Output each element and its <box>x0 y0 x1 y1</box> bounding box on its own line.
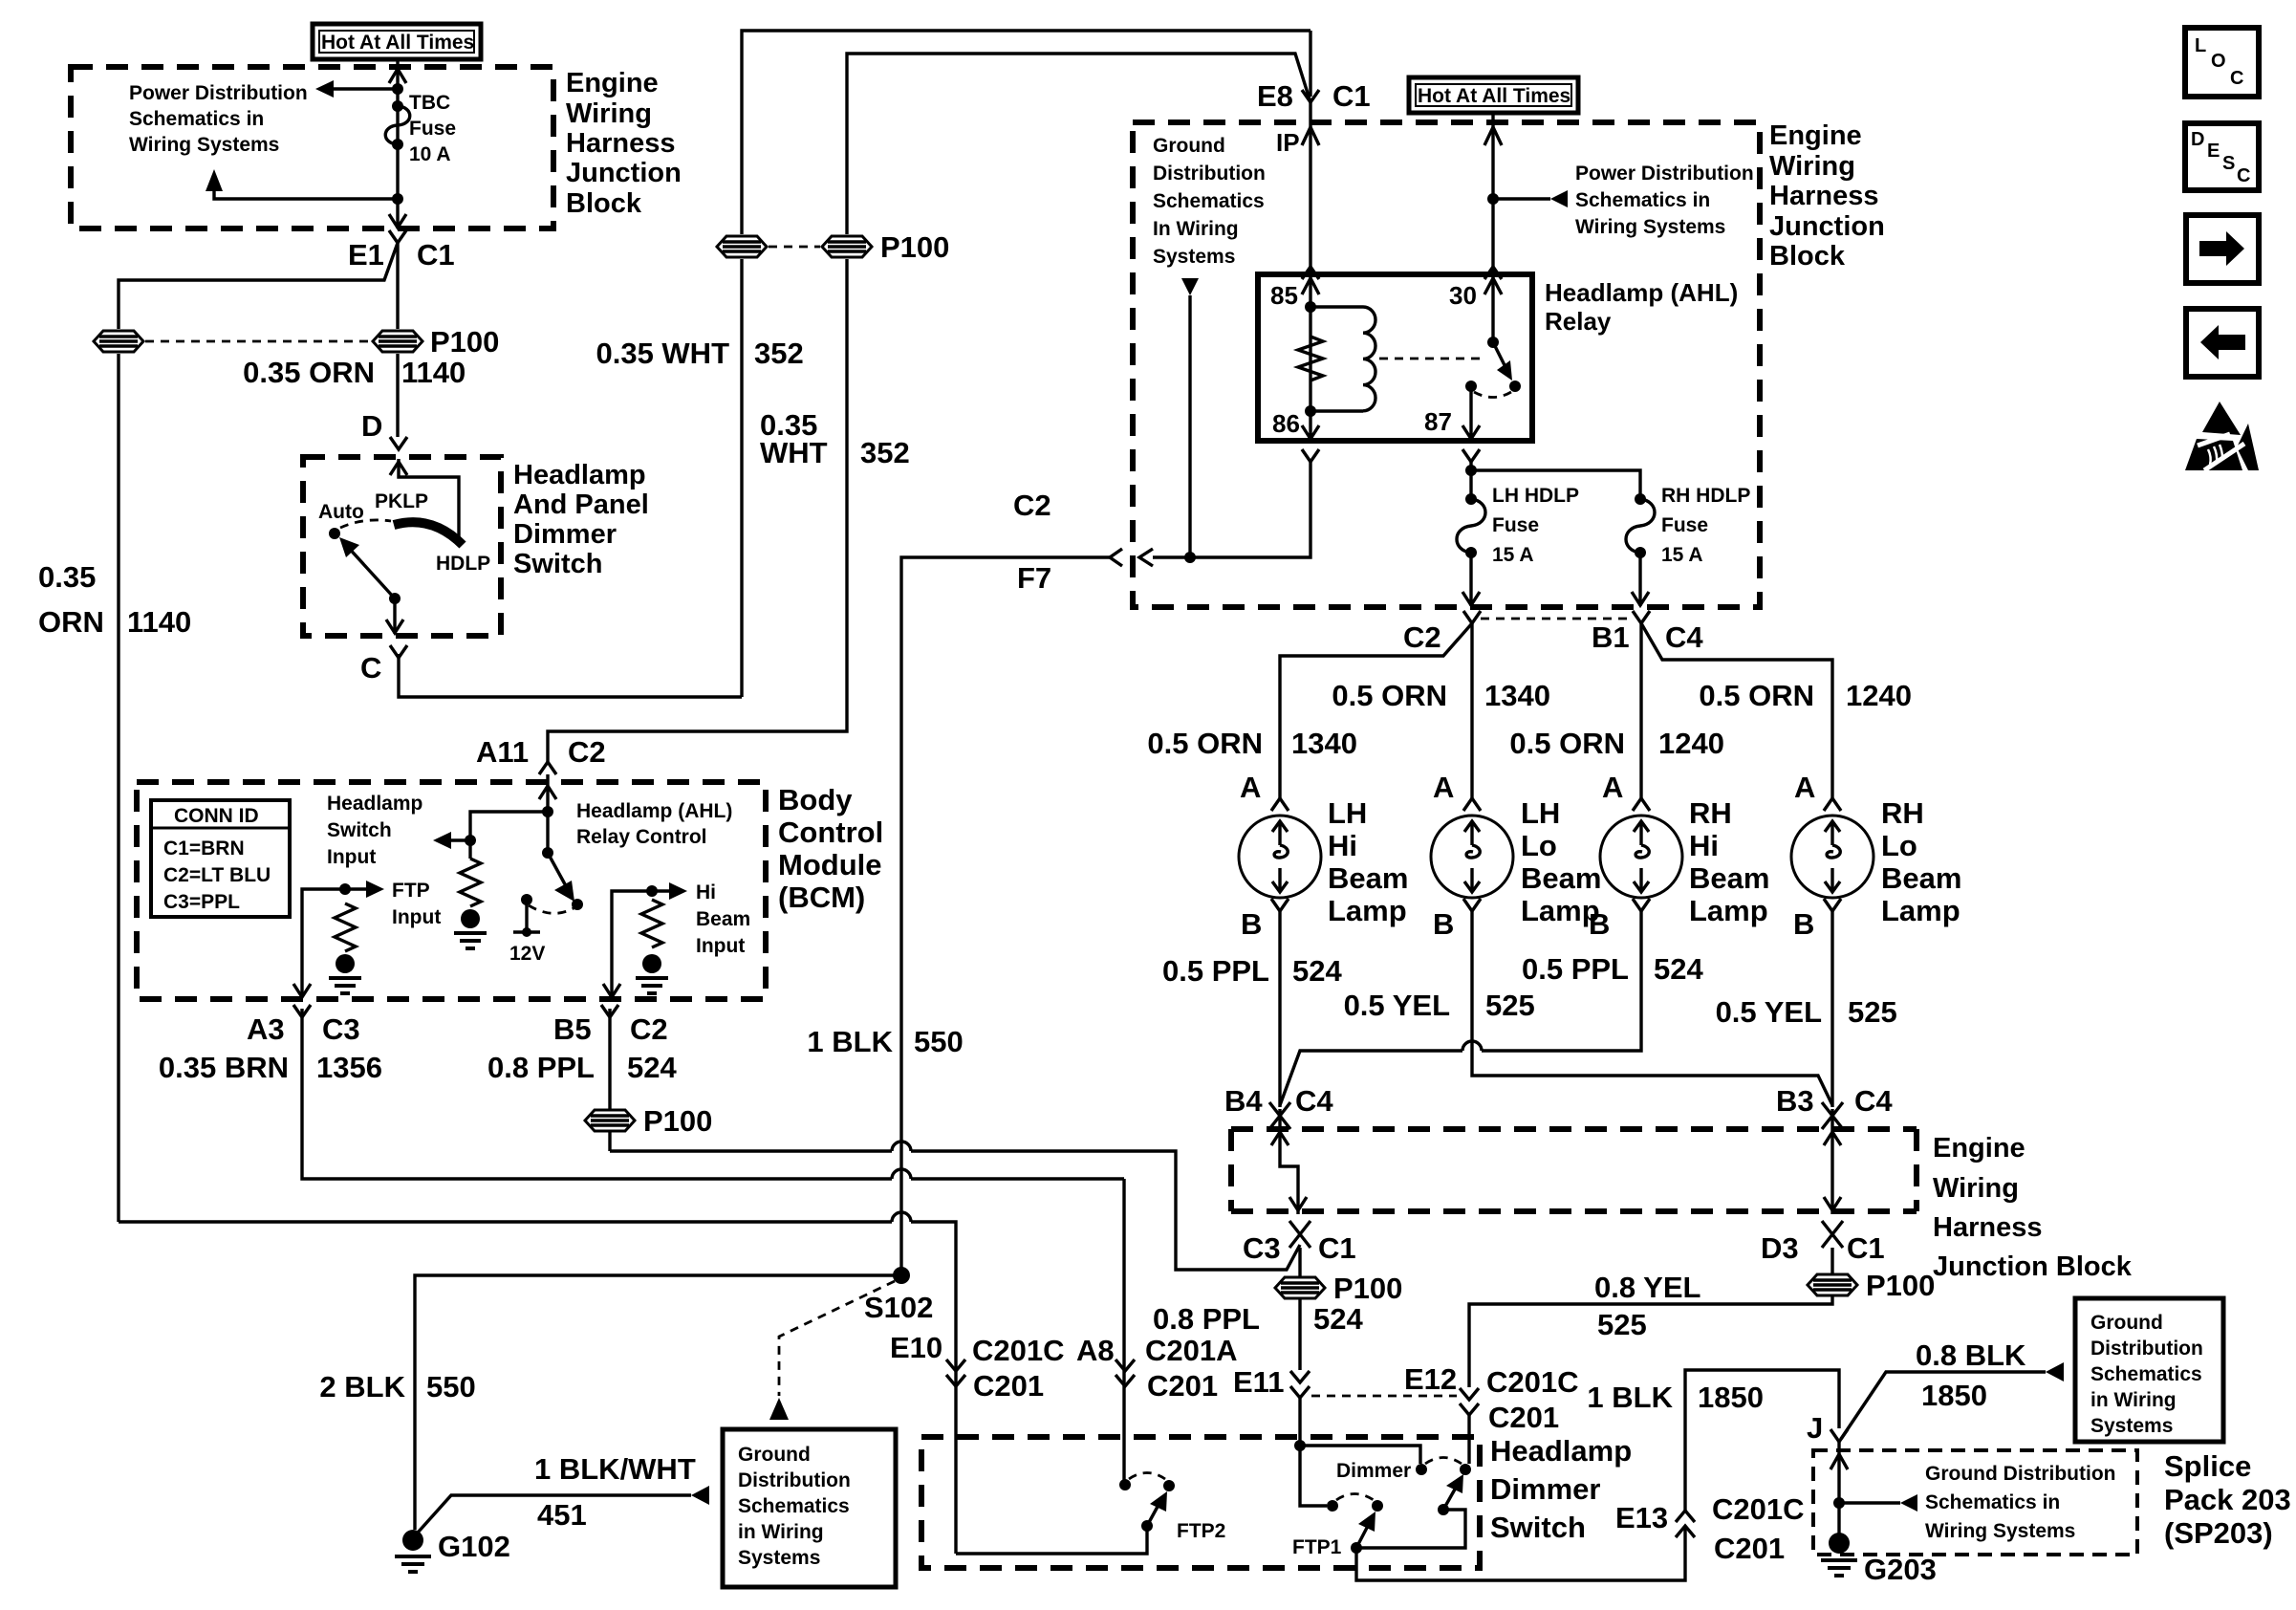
wire: G102 to ground distribution ref (1 BLK/WHT 451) <box>418 1495 691 1533</box>
contact: 12V <box>521 894 532 905</box>
svg-text:C: C <box>360 651 381 685</box>
svg-text:524: 524 <box>627 1051 677 1084</box>
svg-text:Relay: Relay <box>1545 307 1612 336</box>
node: hi beam input tap <box>646 885 658 897</box>
headlamp AHL relay box <box>1258 274 1532 441</box>
svg-text:0.8 YEL: 0.8 YEL <box>1594 1271 1700 1304</box>
connector J <box>1807 1411 1848 1445</box>
node S102 <box>893 1267 910 1284</box>
contact: arm end <box>572 899 583 910</box>
svg-text:Body: Body <box>778 783 853 816</box>
svg-text:C1: C1 <box>417 238 455 272</box>
svg-text:FTP1: FTP1 <box>1292 1536 1342 1558</box>
svg-text:352: 352 <box>860 436 910 469</box>
svg-text:Switch: Switch <box>1490 1511 1586 1544</box>
wire: C2 diagonal to LH Hi feed <box>1280 623 1472 798</box>
svg-text:Wiring Systems: Wiring Systems <box>1925 1520 2075 1542</box>
node: headlamp switch input arrow tap <box>465 835 476 846</box>
svg-text:Headlamp (AHL): Headlamp (AHL) <box>1545 278 1738 307</box>
ground distribution schematics box (right) <box>2075 1298 2223 1442</box>
svg-text:30: 30 <box>1449 281 1477 310</box>
svg-text:Input: Input <box>327 846 376 868</box>
wire: B5 right to C3/C1 (0.8 PPL) <box>610 1151 1300 1270</box>
svg-text:Junction: Junction <box>1769 211 1885 242</box>
wire+arrow: splice ground distribution ref <box>1839 1501 1900 1504</box>
hot-at-all-times box 2 <box>1409 77 1578 113</box>
svg-text:525: 525 <box>1485 989 1535 1022</box>
ground (internal BCM, FTP) <box>329 954 361 993</box>
wire: D3/C1 down through P100 to 0.8 YEL run <box>1469 1248 1832 1387</box>
svg-text:Fuse: Fuse <box>1661 514 1708 536</box>
svg-text:C3=PPL: C3=PPL <box>163 891 240 913</box>
node: power distribution tap <box>392 83 403 95</box>
dashed link E11 to E12 <box>1311 1395 1457 1398</box>
wire: relay 85 internal <box>1309 276 1311 411</box>
node: fuse output tap <box>392 193 403 205</box>
svg-text:Engine: Engine <box>1769 120 1862 151</box>
contact: dimmer left <box>1416 1464 1427 1475</box>
wire: A8 wire down to FTP2 contact <box>1122 1179 1125 1480</box>
svg-text:0.8 PPL: 0.8 PPL <box>1153 1302 1260 1336</box>
svg-text:IP: IP <box>1276 128 1300 157</box>
connector E13 C201C/C201 <box>1676 1492 1805 1565</box>
arrow up below top edge (IP) <box>1302 127 1319 145</box>
svg-text:Input: Input <box>392 906 441 928</box>
relay coil <box>1310 307 1375 411</box>
svg-text:0.5 ORN: 0.5 ORN <box>1509 727 1625 760</box>
svg-text:Input: Input <box>696 935 745 957</box>
svg-text:1356: 1356 <box>316 1051 382 1084</box>
svg-text:Distribution: Distribution <box>738 1469 851 1491</box>
svg-text:Distribution: Distribution <box>1153 163 1266 185</box>
fuse RH HDLP 15A <box>1626 485 1750 566</box>
svg-text:C: C <box>2230 68 2243 89</box>
ground (internal BCM) <box>454 909 487 948</box>
pivot contact <box>389 593 401 604</box>
svg-text:1240: 1240 <box>1658 727 1724 760</box>
wire: E1 to left branch via diagonal <box>119 243 398 329</box>
wire: RH Hi B left to B4/C4 (0.5 PPL) <box>1280 911 1641 1105</box>
svg-text:A: A <box>1602 771 1623 804</box>
svg-text:RH: RH <box>1881 796 1924 830</box>
arrow up at BCM top edge <box>539 786 556 799</box>
svg-text:0.35 BRN: 0.35 BRN <box>159 1051 289 1084</box>
wire: E12 down to dimmer right contact <box>1467 1415 1470 1464</box>
left arrow box <box>2186 309 2259 377</box>
svg-text:Lamp: Lamp <box>1689 894 1768 927</box>
connector E1 / C1 <box>348 230 455 272</box>
arrow up below top edge (30 feed) <box>1484 127 1502 145</box>
svg-text:A: A <box>1240 771 1261 804</box>
svg-text:B: B <box>1793 907 1814 941</box>
svg-text:1140: 1140 <box>127 605 191 639</box>
svg-text:D: D <box>361 409 382 443</box>
svg-text:Power Distribution: Power Distribution <box>129 82 308 104</box>
svg-text:C4: C4 <box>1295 1084 1333 1118</box>
svg-text:A3: A3 <box>247 1012 285 1046</box>
wire: B4 through junction block with jog <box>1280 1109 1298 1214</box>
dashed arc 12V to arm <box>529 905 574 913</box>
lamp LH Hi Beam: pin A <box>1240 771 1289 811</box>
ref arrow (ground distribution, G102) <box>691 1486 709 1505</box>
svg-text:550: 550 <box>426 1370 476 1403</box>
svg-text:Lo: Lo <box>1881 829 1917 862</box>
dashed actuation link <box>1379 358 1484 360</box>
svg-text:0.5 YEL: 0.5 YEL <box>1344 989 1450 1022</box>
ref arrow left (power distribution) <box>315 80 334 98</box>
svg-text:Engine: Engine <box>566 68 659 98</box>
dashed arc FTP2 contacts <box>1129 1473 1165 1480</box>
svg-text:A: A <box>1794 771 1815 804</box>
right arrow box <box>2186 215 2259 283</box>
engine wiring harness junction block 3 (dashed box) <box>1231 1129 1917 1211</box>
svg-text:Systems: Systems <box>1153 246 1235 268</box>
svg-text:0.35 ORN: 0.35 ORN <box>243 356 375 389</box>
svg-text:B5: B5 <box>553 1012 592 1046</box>
ground distribution schematics box (bottom left) <box>723 1429 896 1587</box>
wire: tap to power distribution reference <box>334 87 398 90</box>
ref arrow up <box>206 169 223 191</box>
contact: FTP1 left <box>1327 1500 1338 1512</box>
svg-text:LH: LH <box>1521 796 1560 830</box>
node: FTP input tap <box>339 883 351 895</box>
wire: RH Lo B down to B3/C4 <box>1830 911 1833 1107</box>
wire: A3 FTP path inside BCM <box>302 889 345 997</box>
grommet P100 (left) <box>94 331 143 352</box>
switch position arc (PKLP to HDLP), thick <box>394 522 463 545</box>
connector A11 / C2 <box>476 735 606 774</box>
svg-text:0.8 PPL: 0.8 PPL <box>487 1051 595 1084</box>
svg-text:Harness: Harness <box>1769 181 1878 211</box>
node: coil/resistor top <box>1305 301 1316 313</box>
svg-text:Junction Block: Junction Block <box>1933 1251 2133 1282</box>
svg-text:J: J <box>1807 1411 1823 1445</box>
svg-text:1340: 1340 <box>1484 679 1550 712</box>
svg-text:Schematics: Schematics <box>738 1495 850 1517</box>
ESD symbol <box>2185 402 2259 470</box>
lamp LH Lo Beam: pin B <box>1433 899 1481 941</box>
dashed arc dimmer contacts <box>1425 1458 1462 1465</box>
svg-text:550: 550 <box>914 1025 964 1058</box>
resistor (headlamp switch input pull-up) <box>460 859 481 906</box>
connector caret below relay (86) <box>1302 449 1319 462</box>
dashed link C2 to B1 <box>1481 618 1629 620</box>
svg-text:Ground Distribution: Ground Distribution <box>1925 1463 2115 1485</box>
svg-text:Beam: Beam <box>1689 861 1769 895</box>
contact: dimmer right <box>1460 1464 1471 1475</box>
svg-text:0.8 BLK: 0.8 BLK <box>1916 1338 2026 1372</box>
contact: pivot 30 <box>1487 337 1499 348</box>
arrow up at box top edge <box>389 69 406 83</box>
wire: IP from E8 down to relay 85 <box>1309 102 1311 274</box>
svg-text:C2: C2 <box>630 1012 668 1046</box>
svg-text:Lamp: Lamp <box>1328 894 1407 927</box>
wire: P100 down to headlamp switch D <box>396 354 399 437</box>
svg-text:85: 85 <box>1270 281 1298 310</box>
svg-text:1240: 1240 <box>1846 679 1912 712</box>
svg-text:Power Distribution: Power Distribution <box>1575 163 1754 185</box>
wire: B1 diagonal to RH Lo feed <box>1641 623 1832 798</box>
svg-text:A11: A11 <box>476 735 529 769</box>
svg-text:B: B <box>1241 907 1262 941</box>
wire: D into switch <box>399 459 459 541</box>
svg-text:Schematics: Schematics <box>2090 1363 2202 1385</box>
svg-text:Pack 203: Pack 203 <box>2164 1483 2291 1516</box>
open arrow at junction block edge (86 ground) <box>1139 549 1153 566</box>
splice pack 203 (dashed box) <box>1813 1450 2137 1555</box>
svg-text:E1: E1 <box>348 238 384 272</box>
contact: FTP1 right <box>1372 1500 1383 1512</box>
svg-text:Ground: Ground <box>2090 1312 2163 1334</box>
svg-text:B3: B3 <box>1776 1084 1814 1118</box>
connector E8 / C1 <box>1257 31 1371 113</box>
ground G203 <box>1821 1533 1937 1586</box>
svg-text:In Wiring: In Wiring <box>1153 218 1239 240</box>
wire: riser from C up through P100 to top line <box>740 259 743 697</box>
contact: FTP2 right <box>1163 1480 1175 1491</box>
svg-text:TBC: TBC <box>409 92 450 114</box>
svg-text:C1=BRN: C1=BRN <box>163 838 245 859</box>
svg-text:O: O <box>2211 51 2226 72</box>
svg-text:C4: C4 <box>1665 620 1703 654</box>
body control module BCM (dashed box) <box>137 782 766 999</box>
node: relay control switch pivot <box>542 847 553 859</box>
ref arrow (0.8 BLK ground distribution) <box>2046 1362 2064 1382</box>
node: dimmer feed <box>1294 1440 1306 1451</box>
LOC box <box>2185 28 2259 97</box>
svg-text:A8: A8 <box>1076 1334 1115 1367</box>
svg-text:P100: P100 <box>1333 1272 1402 1305</box>
engine wiring harness junction block 2 (dashed box) <box>1133 122 1760 607</box>
wire: E10 drop from left long run <box>119 1222 956 1554</box>
svg-text:ORN: ORN <box>38 605 104 639</box>
svg-text:P100: P100 <box>1866 1269 1935 1302</box>
dashed ref from S102 to ground distribution box <box>779 1281 895 1396</box>
svg-text:C: C <box>2237 165 2250 186</box>
lamp RH Hi Beam <box>1600 816 1682 898</box>
svg-text:LH HDLP: LH HDLP <box>1492 485 1579 507</box>
wire: A11 into BCM <box>546 774 549 853</box>
svg-text:0.5 PPL: 0.5 PPL <box>1162 954 1269 988</box>
wire: 87 down-arrow inside relay <box>1462 386 1480 439</box>
svg-text:Switch: Switch <box>513 549 602 579</box>
svg-text:C2=LT BLU: C2=LT BLU <box>163 864 271 886</box>
CONN ID table <box>151 800 290 917</box>
svg-text:Dimmer: Dimmer <box>1336 1460 1411 1482</box>
svg-text:Harness: Harness <box>1933 1212 2042 1243</box>
svg-text:C3: C3 <box>1243 1231 1281 1265</box>
svg-text:Wiring: Wiring <box>1933 1173 2019 1204</box>
wire: split to RH fuse <box>1471 470 1640 499</box>
grommet P100 (right) <box>373 331 422 352</box>
svg-text:Harness: Harness <box>566 128 675 159</box>
wire: A11 riser below P100 <box>548 259 847 762</box>
switch arm with arrow toward Auto <box>339 537 395 598</box>
svg-text:Lamp: Lamp <box>1881 894 1960 927</box>
svg-text:Hi: Hi <box>696 881 716 903</box>
wire: B1 straight to RH Hi feed <box>1639 623 1642 798</box>
fuse LH HDLP 15A <box>1457 485 1579 566</box>
wire: LH fuse to box edge <box>1462 553 1480 606</box>
svg-text:And Panel: And Panel <box>513 490 649 520</box>
hop over ground wire (E10 run) <box>892 1212 911 1222</box>
svg-text:Hi: Hi <box>1328 829 1357 862</box>
arrow down at BCM bottom (A3) <box>293 984 311 997</box>
connector A3 / C3 <box>247 1005 360 1046</box>
wire: dimmer pivot to FTP1 pivot <box>1356 1510 1465 1548</box>
FTP2 arm with arrow <box>1147 1491 1167 1526</box>
svg-text:0.5 YEL: 0.5 YEL <box>1716 995 1822 1029</box>
wire: pivot down to box edge <box>393 598 396 634</box>
svg-text:C3: C3 <box>322 1012 360 1046</box>
hop over ground wire (B5 run) <box>892 1142 911 1151</box>
svg-text:Ground: Ground <box>1153 135 1225 157</box>
wire: tap to up-arrow reference <box>214 191 398 199</box>
svg-text:Beam: Beam <box>1521 861 1601 895</box>
svg-text:C1: C1 <box>1332 79 1371 113</box>
svg-text:Relay Control: Relay Control <box>576 826 707 848</box>
ref arrow down (ground distribution) <box>1181 278 1199 295</box>
wire: C3/C1 down through P100 to E11 <box>1298 1248 1301 1370</box>
wire: J into splice pack <box>1837 1442 1840 1534</box>
svg-text:15 A: 15 A <box>1661 544 1703 566</box>
contact: FTP1 pivot <box>1351 1542 1362 1554</box>
wire: 87 to fuse split <box>1469 462 1472 499</box>
svg-text:E10: E10 <box>890 1331 942 1364</box>
contact: FTP2 left <box>1119 1479 1131 1490</box>
node: coil/resistor bottom <box>1305 405 1316 417</box>
svg-text:1140: 1140 <box>401 356 466 389</box>
connector C2 / F7 at box edge <box>1013 489 1122 595</box>
svg-text:G203: G203 <box>1864 1553 1937 1586</box>
svg-text:Switch: Switch <box>327 819 392 841</box>
svg-text:D3: D3 <box>1761 1231 1799 1265</box>
connector E12 C201C/C201 <box>1460 1365 1579 1434</box>
svg-text:CONN ID: CONN ID <box>174 805 259 827</box>
svg-text:525: 525 <box>1848 995 1897 1029</box>
svg-text:C1: C1 <box>1318 1231 1356 1265</box>
wire: hot2 down to relay 30 <box>1491 114 1494 274</box>
lamp RH Hi Beam: pin A <box>1602 771 1650 811</box>
wire: tap left to pull-up resistor <box>470 812 548 859</box>
svg-text:1850: 1850 <box>1921 1379 1987 1412</box>
svg-text:1 BLK: 1 BLK <box>807 1025 893 1058</box>
contact: 87 <box>1465 381 1477 392</box>
svg-text:Block: Block <box>566 188 642 219</box>
svg-text:0.35: 0.35 <box>38 560 96 594</box>
svg-text:E8: E8 <box>1257 79 1293 113</box>
wire: E13 up and to J <box>1685 1370 1839 1511</box>
connector caret above relay (85) <box>1302 267 1319 279</box>
fuse TBC 10A <box>385 92 456 165</box>
svg-text:B: B <box>1433 907 1454 941</box>
grommet P100 (top pair right) <box>822 236 872 257</box>
svg-text:524: 524 <box>1654 952 1703 986</box>
ground (internal BCM, hi beam) <box>636 954 668 993</box>
connector B1 / C4 (RH fuse out) <box>1592 611 1703 654</box>
lamp RH Lo Beam: pin B <box>1793 899 1841 941</box>
svg-text:C4: C4 <box>1854 1084 1893 1118</box>
svg-text:Beam: Beam <box>696 908 750 930</box>
FTP1 arm with arrow <box>1356 1512 1375 1548</box>
node: fuse split <box>1465 465 1477 476</box>
lamp LH Hi Beam <box>1239 816 1321 898</box>
grommet P100 (BCM B5) <box>585 1110 635 1131</box>
wire: 86 down-arrow inside relay <box>1302 411 1319 439</box>
wire: J tap to ground distribution ref (0.8 BLK 1850) <box>1841 1372 2046 1439</box>
wire+arrow: FTP input <box>345 887 366 890</box>
connector E11 <box>1290 1371 1310 1398</box>
svg-text:L: L <box>2195 35 2206 56</box>
arrow down at bottom edge (B3) <box>1824 1197 1841 1210</box>
svg-text:0.5 PPL: 0.5 PPL <box>1522 952 1629 986</box>
hot-at-all-times box 1 <box>313 24 481 59</box>
svg-text:Distribution: Distribution <box>2090 1338 2203 1360</box>
dashed link between P100 grommets <box>145 340 371 343</box>
dashed arc from Auto toward PKLP <box>340 520 391 528</box>
svg-text:Headlamp (AHL): Headlamp (AHL) <box>576 800 732 822</box>
connector B3 / C4 <box>1776 1084 1893 1129</box>
hop over ground wire (A3 run) <box>892 1169 911 1179</box>
svg-text:P100: P100 <box>430 325 499 359</box>
connector caret below relay (87) <box>1462 449 1480 462</box>
svg-text:15 A: 15 A <box>1492 544 1534 566</box>
wire: relay 30 internal to pivot <box>1491 276 1494 338</box>
svg-text:E13: E13 <box>1615 1501 1668 1534</box>
svg-text:S: S <box>2222 153 2235 174</box>
connector caret above relay (30) <box>1484 267 1502 279</box>
svg-text:524: 524 <box>1313 1302 1363 1336</box>
wire+arrow: hi beam input <box>652 889 669 892</box>
svg-text:S102: S102 <box>864 1291 933 1324</box>
wire: C2 straight to LH Lo feed <box>1470 623 1473 798</box>
svg-text:(SP203): (SP203) <box>2164 1516 2273 1550</box>
dashed arc 87 to arm <box>1474 392 1511 398</box>
wire: ground distribution down to 86 run <box>1188 295 1191 557</box>
svg-text:Hot At All Times: Hot At All Times <box>1418 85 1570 107</box>
resistor (relay internal) <box>1298 337 1323 381</box>
grommet P100 (0.8 YEL) <box>1808 1274 1857 1295</box>
svg-text:Wiring: Wiring <box>566 98 652 129</box>
wire: hot feed into junction block <box>396 59 399 228</box>
svg-text:C201: C201 <box>1488 1401 1559 1434</box>
wire: relay 86 to ground run <box>1153 462 1310 557</box>
wire: C1 down to P100 <box>396 243 399 329</box>
12V source symbol <box>509 900 545 965</box>
svg-text:FTP2: FTP2 <box>1177 1520 1225 1542</box>
lamp LH Lo Beam <box>1431 816 1513 898</box>
wire: FTP2 pivot to E10 wire <box>956 1526 1147 1554</box>
svg-text:Schematics in: Schematics in <box>1925 1491 2060 1513</box>
lamp RH Lo Beam <box>1791 816 1874 898</box>
grommet P100 (top pair left) <box>717 236 767 257</box>
headlamp dimmer switch (dashed box) <box>921 1437 1480 1568</box>
svg-text:352: 352 <box>754 337 804 370</box>
relay switch arm with arrow <box>1493 342 1512 381</box>
node: headlamp switch input tap <box>542 806 553 817</box>
svg-text:Fuse: Fuse <box>409 118 456 140</box>
hop over LH Lo wire <box>1462 1041 1482 1051</box>
arrow down at box bottom <box>386 620 403 633</box>
node: ground distribution join <box>1184 552 1196 563</box>
svg-text:C2: C2 <box>1403 620 1441 654</box>
svg-text:86: 86 <box>1272 409 1300 438</box>
arrow up below top edge (B3) <box>1824 1132 1841 1145</box>
connector C2 (LH fuse out) <box>1403 611 1481 654</box>
svg-text:Wiring Systems: Wiring Systems <box>1575 216 1725 238</box>
wire+arrow: headlamp switch input <box>451 838 470 841</box>
wire: A3 down and right (0.35 BRN 1356) <box>302 1009 1124 1179</box>
